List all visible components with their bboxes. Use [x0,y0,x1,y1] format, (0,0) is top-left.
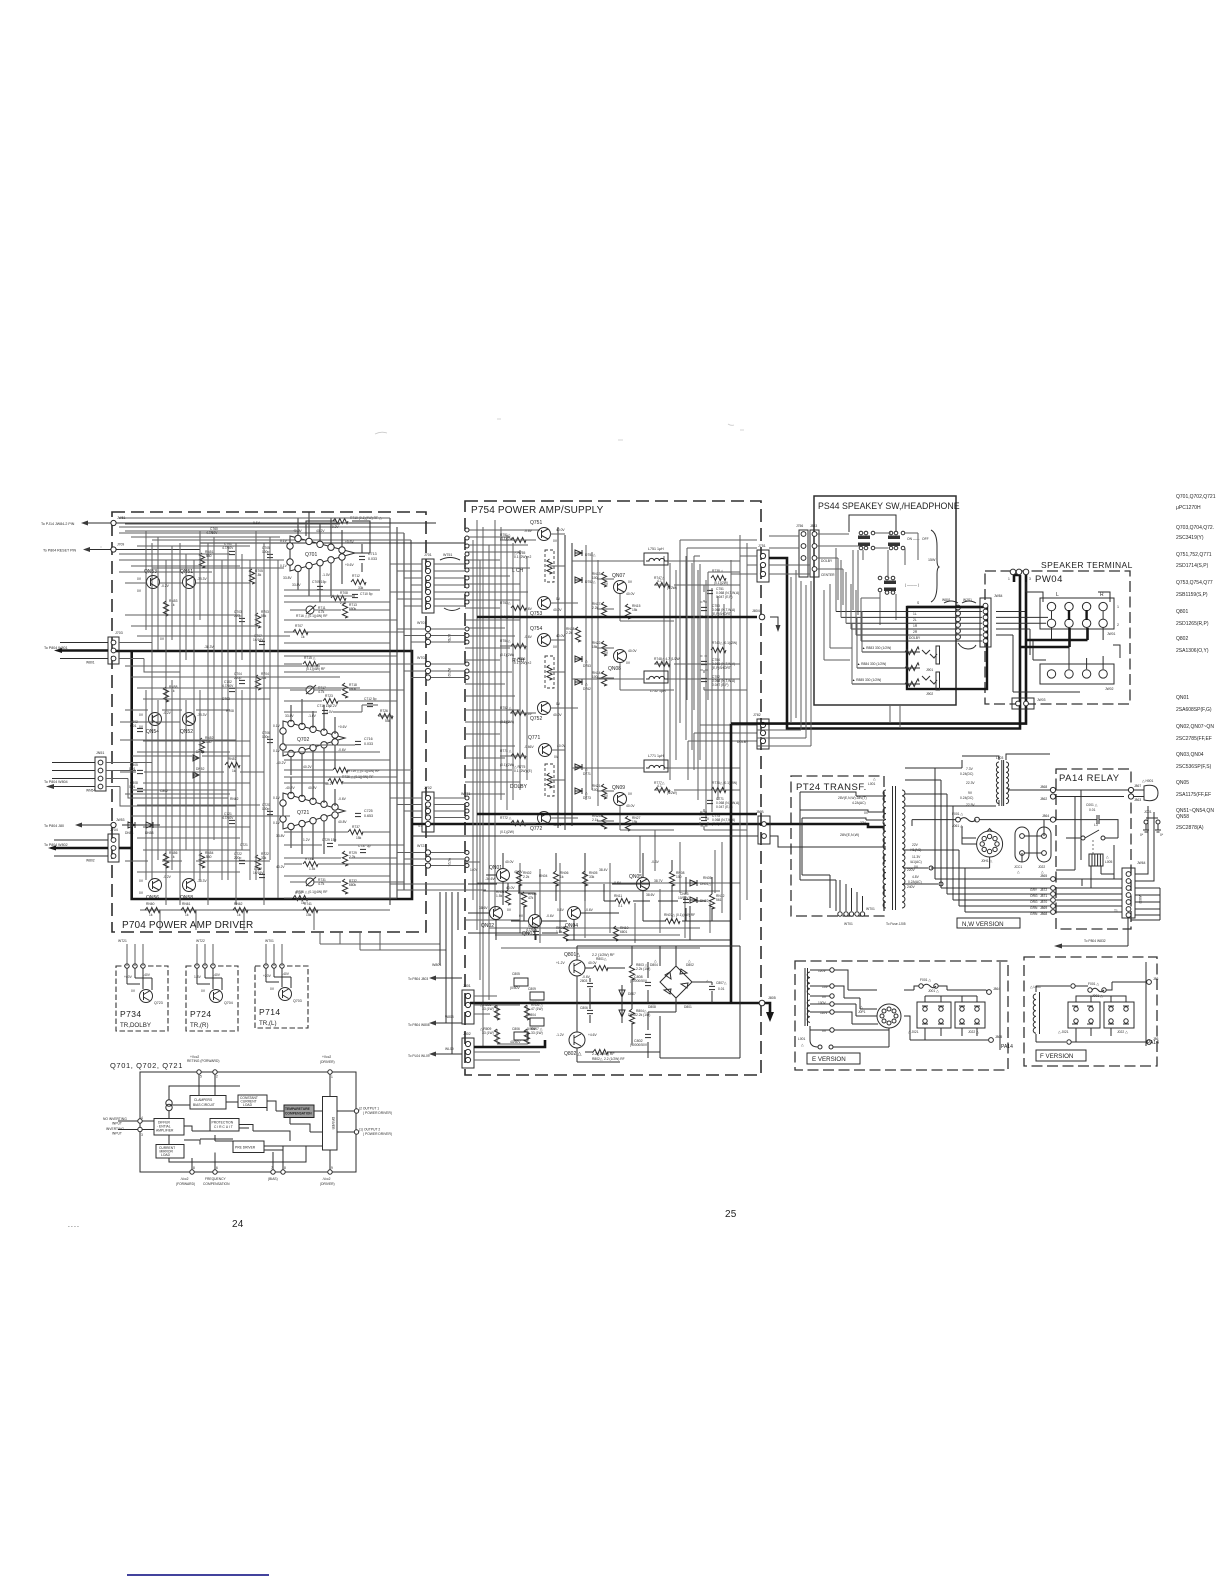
svg-text:RN04: RN04 [539,874,548,878]
svg-text:15k: 15k [632,820,638,824]
svg-text:10/16V: 10/16V [253,871,264,875]
svg-text:COMPENSATION: COMPENSATION [203,1182,230,1186]
op-amp Q702 [283,721,345,756]
svg-text:40.0V: 40.0V [556,528,565,532]
wire bottom resistor row [140,909,390,911]
svg-text:33 (1W): 33 (1W) [531,1031,543,1035]
emitter resistor block R756 [545,656,554,688]
svg-text:J702: J702 [424,786,432,790]
heavy jack box [907,607,987,689]
resistor RN56 [163,853,168,868]
svg-text:W751: W751 [443,553,452,557]
svg-text:0.1V: 0.1V [273,821,281,825]
wire relay coil leads [1060,866,1114,888]
svg-text:To P804 W808: To P804 W808 [408,1023,430,1027]
svg-text:JC01: JC01 [1144,810,1152,814]
diode D773 [575,788,582,794]
thick ground bus rectangle [114,651,413,899]
svg-text:J751: J751 [758,544,766,548]
resistor RN17 [601,602,606,617]
svg-text:ON: ON [907,537,913,541]
wire left column links [120,722,264,790]
svg-text:W701: W701 [417,621,426,625]
wire arrow to P804 J803 [436,977,462,979]
wire J702 leads [390,798,422,818]
svg-text:WT01: WT01 [265,939,274,943]
svg-text:J862: J862 [1040,797,1047,801]
svg-text:2SD1714(S,P): 2SD1714(S,P) [1176,563,1209,569]
wire switch wiring [817,533,918,625]
resistor R804 [629,1009,634,1024]
wire W751 bracket [440,558,900,729]
thick psu ground line [470,1003,770,1012]
svg-text:W702: W702 [417,656,426,660]
svg-text:(10000/50V: (10000/50V [630,1043,648,1047]
svg-text:JW01: JW01 [1107,632,1116,636]
outer box [140,1072,356,1172]
resistor R707 [293,629,308,634]
resistor R752 [511,710,526,715]
svg-text:( ——— ): ( ——— ) [905,583,919,587]
svg-text:0.01: 0.01 [718,987,725,991]
capacitor C805 [514,978,528,986]
resistor R732 [342,879,347,894]
svg-text:40.0V: 40.0V [506,886,515,890]
wire bottom taps [830,875,863,911]
svg-text:JW84: JW84 [994,594,1003,598]
wire bracket under [958,643,976,649]
svg-text:J0H1 △: J0H1 △ [981,859,993,863]
capacitor C737 [360,849,366,852]
resistor R710 [333,518,348,523]
svg-text:1k: 1k [560,875,564,879]
wire right risers [706,580,724,820]
wire bundle W721 [431,853,465,866]
capacitor C803 [587,983,593,986]
svg-text:J869: J869 [1040,906,1047,910]
svg-text:5: 5 [200,1075,202,1079]
wire PS44 drop verticals [680,540,811,746]
svg-text:100: 100 [592,788,598,792]
connector JN51 [95,757,106,791]
svg-text:1: 1 [1117,605,1119,609]
inductor L771 [646,765,668,768]
svg-text:QN07: QN07 [612,573,625,579]
svg-text:100: 100 [676,875,682,879]
svg-text:To Fuse JJ05: To Fuse JJ05 [886,922,906,926]
svg-text:561: 561 [716,898,722,902]
svg-text:R740△ (0.1)(2W): R740△ (0.1)(2W) [712,641,737,645]
svg-text:R715 △: R715 △ [304,656,316,660]
svg-text:1R: 1R [913,624,918,628]
wire arrow to P804 reset [90,549,113,551]
svg-text:680k: 680k [349,883,357,887]
tap circles E [830,968,834,972]
svg-text:(FORWARD): (FORWARD) [176,1182,195,1186]
wire primary left loop [800,792,836,880]
svg-text:(1/2W): (1/2W) [667,791,677,795]
svg-text:(DRIVER): (DRIVER) [320,1060,335,1064]
svg-text:(0.1)(2W): (0.1)(2W) [500,653,514,657]
block protection circuit [210,1119,239,1132]
node JW51 [111,520,116,525]
svg-text:-Vcc2: -Vcc2 [322,1177,331,1181]
capacitor C808 bulk [645,982,651,985]
transistor QN03 [529,915,542,928]
wire right rails [731,535,747,920]
svg-text:J864: J864 [1042,814,1049,818]
svg-text:40.0V: 40.0V [505,860,514,864]
svg-text:Q751,752,Q771: Q751,752,Q771 [1176,552,1212,558]
svg-text:Q801△: Q801△ [564,952,580,958]
wire W721 leads [397,853,425,866]
svg-text:R: R [1100,592,1104,598]
svg-text:25: 25 [725,1209,737,1220]
wire rows to W802 [1056,879,1122,912]
resistor R729 [342,851,347,866]
capacitor C805 [137,770,143,773]
svg-text:J872: J872 [1040,888,1047,892]
svg-text:4.7k: 4.7k [318,882,325,886]
svg-text:15k: 15k [632,608,638,612]
wire left feed rows [465,620,520,920]
pot R711 [306,606,314,614]
op-amp Q701 [290,536,355,571]
svg-text:PW04: PW04 [1035,574,1063,585]
svg-text:AMPLIFIER: AMPLIFIER [156,1129,174,1133]
svg-text:2: 2 [1117,623,1119,627]
svg-text:Q721: Q721 [297,810,309,816]
transistor Q723 [140,990,153,1003]
transistor QN08 [614,650,627,663]
wire op-amp2 pins [291,699,335,787]
thick WL09 line [474,1040,545,1047]
svg-text:J061 △: J061 △ [952,824,963,828]
svg-text:D804: D804 [650,963,658,967]
svg-text:JW64: JW64 [1137,861,1146,865]
svg-text:C802: C802 [160,789,168,793]
wire horizontal feeds top [465,530,540,608]
connector J801 [462,990,474,1024]
connector JW84 [980,598,991,647]
svg-text:J86: J86 [1153,977,1158,981]
svg-text:QN54: QN54 [146,729,159,735]
svg-text:J883: J883 [810,524,817,528]
switch S1b [889,531,893,535]
feedback loop rect [306,521,370,572]
svg-text:24: 24 [232,1219,244,1230]
capacitor C702 [229,688,235,691]
svg-text:R708: R708 [340,591,348,595]
svg-text:C710 5p: C710 5p [360,592,373,596]
svg-text:To PL04 WL09: To PL04 WL09 [408,1054,430,1058]
svg-text:33 (1W): 33 (1W) [482,1031,494,1035]
svg-text:D808: D808 [648,1005,656,1009]
resistor R754 [511,643,526,648]
resistor RN57 [225,762,240,767]
wire lower lead to transformer [412,836,886,847]
wire P754 left edge pins [465,528,469,868]
transistor QN01 [497,869,510,882]
resistor R705 [249,569,254,584]
svg-text:DN53: DN53 [145,831,154,835]
bridge rectifier [660,966,692,998]
wire bundle J701 to P754 [434,564,465,606]
switch S1a [859,531,863,535]
node J805 [759,1000,765,1006]
resistor RN14 [601,671,606,686]
capacitor C810 [514,1032,528,1040]
svg-text:Q702: Q702 [297,737,309,743]
svg-text:Q703,Q704,Q72.: Q703,Q704,Q72. [1176,525,1214,531]
wire long verticals left section [152,543,278,905]
top wire F [1036,986,1070,992]
svg-text:GRN: GRN [1030,912,1038,916]
bracket SW [931,530,939,602]
block P734 TR,DOLBY [116,966,168,1031]
svg-text:560: 560 [206,855,212,859]
terminal circles row1 [1047,602,1055,610]
svg-text:W721: W721 [417,844,426,848]
resistor RN27 [625,816,630,831]
wire 220/240 taps right [903,868,938,884]
svg-text:0.01: 0.01 [1089,808,1096,812]
svg-text:FREQUENCY: FREQUENCY [205,1177,226,1181]
svg-text:-0.6V: -0.6V [338,748,347,752]
relay contact [1081,836,1085,840]
svg-text:C806: C806 [580,1006,588,1010]
capacitor C807 [709,986,715,989]
svg-text:To P804 W804: To P804 W804 [44,780,68,784]
transistor QN04 [568,907,581,920]
svg-text:To P804 J803: To P804 J803 [408,977,428,981]
svg-text:(0.1)(2W): (0.1)(2W) [500,763,514,767]
svg-text:0.6V: 0.6V [557,908,565,912]
resistor RN53 [163,601,168,616]
svg-text:J868: J868 [1040,912,1047,916]
resistor RN60 [145,907,160,912]
resistor R747 [655,582,670,587]
svg-text:L001: L001 [868,782,876,786]
wire arrow to PL04 WL09 [436,1053,462,1055]
svg-text:40.0V: 40.0V [588,961,597,965]
PA14 vertical E [999,962,1001,1050]
svg-text:+4.6V: +4.6V [588,1033,598,1037]
svg-text:33.8V: 33.8V [292,583,301,587]
AC plug [1134,790,1144,797]
svg-text:μPC1270H: μPC1270H [1176,505,1201,511]
svg-text:P704 POWER AMP DRIVER: P704 POWER AMP DRIVER [122,920,253,931]
svg-text:Q801: Q801 [1176,609,1188,615]
svg-text:QN56: QN56 [146,895,159,901]
svg-text:-1.0V: -1.0V [308,714,317,718]
capacitor C701 [229,551,235,554]
svg-text:R741: R741 [304,902,312,906]
svg-text:-40V: -40V [143,973,151,977]
terminal strip 2 [1040,664,1114,684]
svg-text:WL09: WL09 [445,1047,454,1051]
svg-text:J870: J870 [1040,900,1047,904]
svg-text:RN05: RN05 [703,876,712,880]
wire vertical risers to bottom arrows [440,892,458,1054]
svg-text:-1.0V: -1.0V [322,573,331,577]
svg-text:4.8V: 4.8V [912,875,920,879]
svg-text:△ H001: △ H001 [1142,779,1153,783]
svg-text:J001 △: J001 △ [928,989,939,993]
svg-text:DOLBY: DOLBY [737,740,749,744]
svg-text:QN58: QN58 [180,895,193,901]
svg-text:J865: J865 [1040,874,1047,878]
svg-text:JW53: JW53 [116,818,125,822]
svg-text:Q723: Q723 [154,1001,163,1005]
svg-text:△ J021: △ J021 [1058,1030,1069,1034]
capacitor CN02 [533,931,539,934]
svg-text:33k: 33k [358,586,364,590]
svg-text:BIAS CIRCUIT: BIAS CIRCUIT [193,1103,215,1107]
svg-text:1k: 1k [232,769,236,773]
transistor QN05 [637,878,650,891]
wire feedback mesh ch1 [284,590,404,643]
connector J751 [757,550,769,582]
svg-text:R727: R727 [295,891,303,895]
wire op-amp3 pins [291,771,335,860]
svg-text:1.8V: 1.8V [194,975,202,979]
svg-text:PA14: PA14 [1001,1044,1013,1050]
svg-text:2: 2 [216,1075,218,1079]
fuse F001 F [1088,988,1092,992]
svg-text:1.5k: 1.5k [309,867,316,871]
capacitor C716 [355,741,361,744]
resistor R736 [328,778,343,783]
svg-text:R712: R712 [352,574,360,578]
svg-text:0.033: 0.033 [368,557,377,561]
resistor RN22 [601,641,606,656]
svg-text:To P804 W802: To P804 W802 [44,843,68,847]
svg-text:D753: D753 [583,664,591,668]
svg-text:2SD1265(R,P): 2SD1265(R,P) [1176,621,1209,627]
resistor R737 [348,829,363,834]
fuse F001 E [919,984,923,988]
capacitor C773 [700,812,708,826]
svg-text:RN57: RN57 [228,757,237,761]
svg-text:PT24 TRANSF.: PT24 TRANSF. [796,782,867,793]
svg-text:0.1V: 0.1V [273,796,281,800]
svg-text:0.24(DC): 0.24(DC) [960,772,973,776]
svg-text:JW02: JW02 [1105,687,1114,691]
resistor R884 [857,663,920,671]
svg-text:▲ R885 330 (1/2W): ▲ R885 330 (1/2W) [852,678,881,682]
resistor R727 [293,895,308,900]
svg-text:40.0V: 40.0V [626,804,635,808]
wire dolby out to J782 [688,725,757,780]
transformer L001 E [807,972,810,994]
svg-text:Q704: Q704 [224,1001,233,1005]
svg-text:QN05: QN05 [1176,780,1189,786]
svg-text:F VERSION: F VERSION [1040,1053,1073,1060]
resistor RN58 [163,687,168,702]
svg-text:33.8V: 33.8V [276,834,285,838]
svg-text:-38.3V: -38.3V [197,879,208,883]
svg-text:40.0V: 40.0V [553,608,562,612]
svg-text:Q752: Q752 [530,716,542,722]
wire J751 leads [731,556,757,574]
capacitor C808 [137,788,143,791]
wire arrow to P804 W804 [52,763,95,779]
svg-text:40.0V: 40.0V [553,823,562,827]
svg-text:P734: P734 [120,1009,141,1019]
wire mid rails [558,527,572,830]
svg-text:0.01: 0.01 [129,785,136,789]
wire bundle W702 [431,664,465,678]
svg-text:Q703: Q703 [293,999,302,1003]
svg-text:DOLBY: DOLBY [909,636,921,640]
transistor Q704 [210,990,223,1003]
svg-text:2SA1175(FF,EF: 2SA1175(FF,EF [1176,792,1211,798]
resistor RN06 [553,871,558,886]
svg-text:33k: 33k [261,856,267,860]
svg-text:QN05: QN05 [629,874,642,880]
resistor R753 [511,605,526,610]
resistor R715 [303,661,318,666]
svg-text:E VERSION: E VERSION [812,1056,846,1063]
svg-text:0.01: 0.01 [130,724,137,728]
resistor RN03 [521,892,526,907]
connector W721 [425,850,430,855]
svg-text:-0.2V: -0.2V [161,584,170,588]
svg-text:0.1V: 0.1V [280,539,288,543]
svg-text:2.2 (1/2W) RF: 2.2 (1/2W) RF [604,1057,625,1061]
svg-text:Q754: Q754 [530,626,542,632]
diode D751 [575,550,582,556]
headphone jack J901 [922,650,937,658]
svg-text:F001 △: F001 △ [920,978,931,982]
svg-text:LOAD: LOAD [161,1153,171,1157]
resistor R733 [303,861,318,866]
svg-text:RETING (FORWARD): RETING (FORWARD) [187,1059,219,1063]
svg-text:F001 △: F001 △ [952,812,963,816]
diode DN53 [146,822,153,828]
thick to PS44 [769,558,1020,729]
resistor RN13 [601,572,606,587]
block PS44 SPEAKER SW box [814,496,956,705]
pot R717 [306,686,314,694]
svg-text:38.4V: 38.4V [599,868,608,872]
svg-text:PS44 SPEAKEY SW,/HEADPHONE: PS44 SPEAKEY SW,/HEADPHONE [818,501,960,511]
svg-text:J865: J865 [995,1035,1002,1039]
wire arrow to P804 W801 [60,643,108,659]
svg-text:▲ R883 330 (1/2W): ▲ R883 330 (1/2W) [862,646,891,650]
transistor QN52 [183,713,196,726]
capacitor C704 [239,680,245,683]
wire bottom section mesh [477,863,740,948]
svg-text:-0.6V: -0.6V [524,529,533,533]
svg-text:-38.3V: -38.3V [197,713,208,717]
svg-text:C712 5p: C712 5p [364,697,377,701]
block temperature compensation [284,1105,314,1118]
svg-text:22V: 22V [912,843,919,847]
svg-text:JCC1: JCC1 [1014,865,1022,869]
svg-text:WT01: WT01 [844,922,853,926]
svg-text:Q771: Q771 [528,735,540,741]
svg-text:-34.6V: -34.6V [485,877,496,881]
resistor R801 [593,965,608,970]
resistor RN02 [516,871,521,886]
svg-text:1k: 1k [301,635,305,639]
transistor Q754 [538,634,551,647]
capacitor C710 [352,594,358,597]
wire L003 to relay [962,754,1050,790]
resistor R806 [524,1005,529,1020]
